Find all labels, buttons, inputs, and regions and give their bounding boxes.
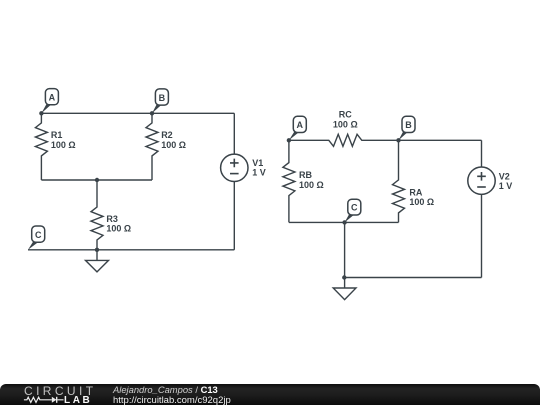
svg-text:RC: RC <box>339 110 352 120</box>
junction dot bottom left <box>95 248 99 252</box>
svg-text:A: A <box>297 120 304 130</box>
svg-text:C: C <box>35 230 42 240</box>
svg-text:100 Ω: 100 Ω <box>299 180 324 190</box>
svg-text:R3: R3 <box>106 214 118 224</box>
V2 plus sign <box>477 172 486 181</box>
svg-text:A: A <box>49 93 56 103</box>
node C flag (left circuit) <box>28 226 45 250</box>
svg-text:RA: RA <box>409 187 422 197</box>
svg-text:1 V: 1 V <box>499 181 513 191</box>
svg-text:B: B <box>405 120 412 130</box>
svg-text:100 Ω: 100 Ω <box>333 119 358 129</box>
CircuitLab logo resistor-diode glyph <box>23 395 65 405</box>
node A flag (right circuit) <box>289 116 306 140</box>
V1 plus sign <box>230 159 239 168</box>
wire V1 top lead <box>233 113 235 154</box>
svg-text:R2: R2 <box>161 130 173 140</box>
junction dot node B right <box>396 138 400 142</box>
resistor RB <box>283 140 295 222</box>
wire bottom rail RB-RA <box>289 221 399 223</box>
junction dot ground right <box>342 275 346 279</box>
wire node C down <box>344 222 346 277</box>
node B flag (left circuit) <box>152 89 168 113</box>
svg-text:100 Ω: 100 Ω <box>106 224 131 234</box>
footer credit line 1 <box>113 384 218 395</box>
svg-text:100 Ω: 100 Ω <box>51 140 76 150</box>
resistor R3 <box>91 180 103 250</box>
resistor RC <box>289 134 399 146</box>
svg-text:100 Ω: 100 Ω <box>161 140 186 150</box>
wire bottom rail left circuit C to V1 <box>28 249 234 251</box>
V1 minus sign <box>230 173 239 175</box>
svg-text:100 Ω: 100 Ω <box>409 197 434 207</box>
node B flag (right circuit) <box>399 116 416 140</box>
V2 minus sign <box>477 186 486 188</box>
svg-text:V1: V1 <box>252 158 263 168</box>
CircuitLab logo LAB text <box>64 395 92 405</box>
junction dot R3 top <box>95 178 99 182</box>
voltage source V1 circle <box>221 154 248 181</box>
svg-text:B: B <box>159 93 166 103</box>
wire top rail right circuit <box>399 139 482 141</box>
footer bar <box>0 384 540 405</box>
junction dot node C right <box>342 220 346 224</box>
wire V1 bottom lead <box>233 182 235 250</box>
ground (left) <box>86 250 109 272</box>
svg-text:RB: RB <box>299 170 312 180</box>
svg-text:1 V: 1 V <box>252 168 266 178</box>
wire bottom rail right circuit to V2 <box>345 277 482 279</box>
wire V2 bottom lead <box>481 194 483 277</box>
junction dot node A left <box>39 111 43 115</box>
svg-text:C: C <box>351 203 358 213</box>
voltage source V2 circle <box>468 167 495 194</box>
junction dot node A right <box>287 138 291 142</box>
CircuitLab logo wordmark <box>24 384 96 398</box>
node A flag (left circuit) <box>41 89 58 114</box>
node C flag (right circuit) <box>345 199 361 222</box>
resistor RA <box>393 140 405 222</box>
junction dot node B left <box>150 111 154 115</box>
resistor R2 <box>146 113 158 180</box>
resistor R1 <box>35 113 47 180</box>
svg-text:R1: R1 <box>51 130 63 140</box>
footer credit line 2 <box>113 395 231 405</box>
wire top rail left circuit A-B-V1 <box>41 112 234 114</box>
ground (right) <box>333 278 356 300</box>
wire bottom rail R1-R2 <box>41 179 152 181</box>
wire V2 top lead <box>481 140 483 167</box>
